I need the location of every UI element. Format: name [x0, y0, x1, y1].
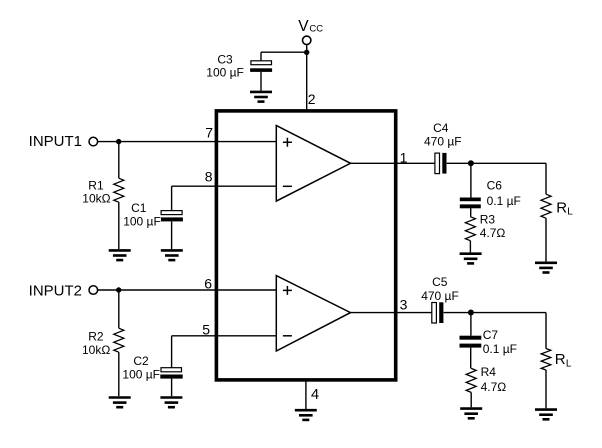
svg-text:4.7Ω: 4.7Ω — [481, 380, 507, 394]
resistor R2 — [114, 290, 124, 396]
ground (R1) — [109, 250, 131, 260]
svg-text:L: L — [567, 207, 573, 218]
svg-text:INPUT1: INPUT1 — [29, 133, 82, 150]
resistor RL2 — [541, 313, 551, 409]
svg-text:R1: R1 — [88, 178, 104, 192]
capacitor C4 — [435, 153, 447, 174]
svg-text:7: 7 — [205, 124, 213, 140]
ground (pin 4) — [295, 410, 317, 420]
svg-text:INPUT2: INPUT2 — [29, 282, 82, 299]
pin number 7 — [205, 124, 213, 140]
svg-text:3: 3 — [400, 297, 408, 313]
wire op-amp U1A output to C4 — [351, 162, 435, 164]
label C2 value — [122, 354, 160, 381]
svg-text:2: 2 — [308, 91, 316, 107]
label INPUT2 — [29, 282, 82, 299]
ground (C2) — [160, 398, 182, 408]
wire junction to C7 — [470, 313, 472, 336]
svg-text:100 µF: 100 µF — [122, 367, 160, 381]
svg-text:470 µF: 470 µF — [421, 289, 459, 303]
pin number 1 — [400, 149, 408, 165]
svg-text:R4: R4 — [481, 365, 497, 379]
ground (R2) — [109, 398, 131, 408]
label C4 value — [424, 121, 462, 149]
IC U1 outline — [216, 111, 395, 380]
ground (R3) — [460, 254, 482, 264]
junction INPUT1 node — [116, 139, 121, 144]
VCC terminal circle — [303, 36, 311, 44]
label C3 value — [206, 53, 244, 80]
ground (R4) — [460, 409, 482, 419]
wire junction down to pin 2 — [306, 52, 308, 111]
pin number 2 — [308, 91, 316, 107]
node VCC label — [298, 18, 323, 35]
svg-text:6: 6 — [204, 276, 212, 292]
capacitor C6 — [460, 198, 481, 217]
op-amp U1B — [276, 276, 350, 351]
resistor R3 — [465, 217, 475, 253]
label R1 value — [82, 178, 110, 205]
svg-text:R3: R3 — [480, 213, 496, 227]
svg-text:C4: C4 — [433, 121, 449, 135]
label C5 value — [421, 275, 459, 303]
svg-text:8: 8 — [205, 169, 213, 185]
svg-text:C6: C6 — [487, 179, 503, 193]
capacitor C3 — [250, 52, 272, 90]
resistor R1 — [114, 142, 124, 250]
svg-text:V: V — [298, 18, 309, 35]
svg-text:5: 5 — [202, 321, 210, 337]
INPUT1 terminal circle — [89, 137, 98, 146]
svg-text:100 µF: 100 µF — [123, 215, 161, 229]
capacitor C2 — [160, 336, 182, 397]
svg-text:1: 1 — [400, 149, 408, 165]
wire pin 8 to C1 — [172, 185, 277, 187]
svg-text:4.7Ω: 4.7Ω — [480, 226, 506, 240]
junction output 2 — [468, 310, 474, 316]
svg-text:C3: C3 — [217, 53, 233, 67]
junction output 1 — [468, 160, 474, 166]
wire junction to C6 — [470, 163, 472, 197]
pin number 8 — [205, 169, 213, 185]
svg-text:L: L — [566, 358, 572, 369]
label R3 value — [480, 213, 506, 240]
svg-text:100 µF: 100 µF — [206, 66, 244, 80]
svg-text:C5: C5 — [432, 275, 448, 289]
pin number 5 — [202, 321, 210, 337]
svg-text:470 µF: 470 µF — [424, 135, 462, 149]
resistor RL1 — [541, 163, 551, 261]
wire VCC circle to junction — [306, 45, 308, 53]
wire C5 to RL2 — [444, 312, 546, 314]
junction VCC node — [304, 50, 309, 55]
wire op-amp U1B output to C5 — [351, 312, 432, 314]
wire pin 4 to ground — [305, 381, 307, 409]
capacitor C5 — [432, 302, 444, 323]
pin number 3 — [400, 297, 408, 313]
label C6 value — [487, 179, 521, 208]
label RL2 — [555, 351, 572, 369]
svg-text:10kΩ: 10kΩ — [82, 343, 110, 357]
resistor R4 — [466, 368, 476, 407]
svg-text:0.1 µF: 0.1 µF — [483, 342, 517, 356]
svg-text:R2: R2 — [88, 330, 104, 344]
label C7 value — [483, 328, 517, 356]
label C1 value — [123, 201, 161, 229]
svg-text:C1: C1 — [131, 201, 147, 215]
pin number 6 — [204, 276, 212, 292]
op-amp U1A — [276, 126, 350, 202]
pin number 4 — [311, 387, 319, 403]
label R2 value — [82, 330, 110, 357]
wire pin 5 to C2 — [172, 335, 277, 337]
wire C4 to RL1 — [447, 162, 546, 164]
svg-text:R: R — [555, 351, 566, 368]
svg-text:C2: C2 — [133, 354, 149, 368]
svg-text:C7: C7 — [483, 328, 499, 342]
ground (C1) — [161, 250, 183, 260]
wire junction to C3 — [261, 51, 307, 53]
label R4 value — [481, 365, 507, 394]
INPUT2 terminal circle — [89, 286, 98, 295]
wire INPUT2 to op-amp pin 6 — [98, 289, 276, 291]
capacitor C7 — [460, 336, 482, 369]
svg-text:CC: CC — [309, 23, 323, 34]
wire INPUT1 to op-amp pin 7 — [98, 141, 276, 143]
ground (RL1) — [535, 263, 557, 273]
svg-text:4: 4 — [311, 387, 319, 403]
capacitor C1 — [161, 186, 183, 249]
label INPUT1 — [29, 133, 82, 150]
ground (C3) — [250, 92, 272, 102]
label RL1 — [556, 199, 573, 217]
svg-text:R: R — [556, 199, 567, 216]
junction INPUT2 node — [116, 287, 121, 292]
ground (RL2) — [535, 410, 557, 420]
svg-text:0.1 µF: 0.1 µF — [487, 194, 521, 208]
svg-text:10kΩ: 10kΩ — [82, 192, 110, 206]
